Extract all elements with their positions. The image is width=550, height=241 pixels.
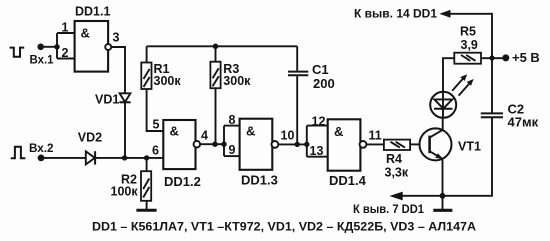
op-amp U: gate DD1.1: [75, 21, 109, 72]
svg-text:10: 10: [281, 129, 295, 143]
wire R1 to pin 5: [147, 89, 164, 131]
wire pin 13: [307, 156, 328, 158]
svg-text:R4: R4: [386, 152, 402, 166]
wire C1 top stub: [296, 46, 298, 70]
svg-text:3: 3: [113, 31, 120, 45]
wire +5V down to C2: [491, 58, 493, 113]
svg-text:+5 В: +5 В: [512, 50, 540, 65]
svg-text:&: &: [81, 26, 90, 41]
wire C2 to bottom rail: [443, 117, 493, 196]
svg-text:5: 5: [153, 118, 160, 132]
svg-text:&: &: [246, 123, 255, 138]
resistor R4: [384, 140, 410, 150]
svg-text:VT1: VT1: [458, 140, 481, 154]
capacitor C1: [288, 71, 308, 73]
svg-text:&: &: [170, 123, 179, 138]
terminal Вх.1: [37, 44, 44, 51]
svg-text:13: 13: [310, 144, 324, 158]
wire arrow to +5V rail: [450, 14, 492, 58]
node R3 top junction: [213, 44, 219, 50]
ground: [442, 196, 444, 209]
svg-text:100к: 100к: [111, 185, 139, 199]
terminal +5 В: [502, 54, 509, 61]
svg-text:2: 2: [62, 46, 69, 60]
gate DD1.4: [328, 119, 361, 170]
ground R2: [136, 209, 156, 212]
node +5V junction: [489, 55, 494, 60]
wire DD1.3 out to DD1.4: [278, 143, 307, 145]
svg-text:DD1.2: DD1.2: [164, 174, 201, 189]
svg-text:VD2: VD2: [78, 130, 102, 144]
capacitor C2: [481, 112, 503, 114]
svg-text:8: 8: [229, 113, 236, 127]
resistor R2: [141, 171, 151, 201]
node C1 bottom: [295, 142, 300, 147]
svg-text:6: 6: [152, 144, 159, 158]
wire pin 2: [57, 58, 75, 60]
svg-text:VD1: VD1: [95, 93, 119, 107]
wire pin 3 to VD1: [111, 47, 125, 94]
wire Вх.1 to junction: [41, 46, 57, 48]
wire pin 12: [307, 125, 328, 127]
svg-text:12: 12: [312, 114, 326, 128]
LED arrow 1: [452, 78, 463, 90]
svg-text:&: &: [334, 124, 343, 139]
node bracket DD1.3: [221, 142, 226, 147]
diode VD2: [86, 151, 95, 164]
svg-text:Вх.2: Вх.2: [29, 143, 54, 155]
wire R5 to +5V: [481, 57, 506, 59]
wire DD1.3 input bracket: [223, 126, 225, 157]
svg-text:DD1 – К561ЛА7, VT1 –КТ972, V: DD1 – К561ЛА7, VT1 –КТ972, VD1, VD2 – КД…: [92, 222, 476, 234]
wire pin 8: [224, 125, 240, 127]
svg-text:К выв. 14 DD1: К выв. 14 DD1: [354, 9, 438, 21]
svg-text:DD1.1: DD1.1: [75, 5, 110, 19]
wire DD1.2 out to DD1.3: [200, 143, 224, 145]
wire VD1 to node: [124, 102, 126, 158]
node bracket DD1.4: [304, 142, 309, 147]
diode VD1: [120, 93, 131, 102]
svg-text:R5: R5: [460, 25, 476, 39]
arrow to pin 14: [439, 10, 450, 18]
svg-text:47мк: 47мк: [508, 115, 539, 130]
LED VD3: [430, 92, 456, 118]
wire collector to LED: [442, 118, 444, 130]
resistor R1: [141, 63, 151, 90]
wire R3 down to node: [215, 88, 217, 144]
output bubble DD1.4 pin 11: [360, 141, 367, 148]
svg-text:Вх.1: Вх.1: [30, 55, 55, 67]
svg-text:4: 4: [201, 129, 208, 143]
LED arrow 2: [459, 83, 470, 95]
svg-text:1: 1: [62, 21, 69, 35]
svg-text:C1: C1: [312, 62, 329, 77]
terminal Вх.2: [38, 155, 45, 162]
input pulse symbol Вх.2: [11, 147, 26, 159]
svg-text:300к: 300к: [223, 74, 251, 88]
transistor VT1: [420, 128, 452, 160]
svg-text:200: 200: [313, 76, 335, 91]
svg-text:К выв. 7 DD1: К выв. 7 DD1: [353, 204, 425, 216]
output bubble DD1.2 pin 4: [194, 141, 201, 148]
wire VD2 to DD1.2 pin 6: [95, 157, 163, 159]
wire to pin 7 arrow: [402, 195, 443, 197]
node VD1 junction: [122, 155, 127, 160]
node emitter junction: [440, 193, 446, 199]
svg-text:3,3к: 3,3к: [385, 166, 409, 180]
wire R2 stub: [146, 158, 148, 171]
wire R1 top stub: [146, 46, 148, 62]
wire LED to R5: [443, 58, 454, 92]
output bubble DD1.1 pin 3: [105, 44, 111, 50]
gate DD1.3: [240, 119, 273, 170]
node R2 junction: [144, 155, 149, 160]
wire pin 1: [57, 32, 75, 34]
node junction Вх.1: [54, 44, 59, 49]
wire Вх.2 to VD2: [41, 157, 86, 159]
wire DD1.4 out to R4: [366, 143, 384, 145]
resistor R5: [454, 53, 481, 64]
wire R2 to ground: [146, 201, 148, 209]
wire R3 top stub: [215, 46, 217, 61]
wire top rail: [147, 45, 298, 47]
wire emitter down: [442, 159, 444, 196]
svg-text:DD1.4: DD1.4: [329, 173, 367, 188]
svg-text:DD1.3: DD1.3: [241, 173, 278, 188]
gate DD1.2: [163, 120, 195, 169]
arrow to pin 7: [389, 192, 402, 201]
input pulse symbol Вх.1: [10, 48, 25, 57]
wire C1 bottom to node: [296, 75, 298, 144]
svg-text:3,9: 3,9: [461, 38, 478, 52]
resistor R3: [210, 62, 220, 88]
svg-text:11: 11: [369, 129, 382, 143]
svg-text:9: 9: [229, 143, 236, 157]
wire pin 9: [224, 155, 240, 157]
node R3 bottom: [212, 142, 217, 147]
wire DD1.4 input bracket: [306, 126, 308, 157]
wire DD1.1 input bracket: [56, 33, 58, 59]
wire R4 to VT1 base: [410, 143, 419, 145]
svg-text:300к: 300к: [154, 74, 182, 88]
output bubble DD1.3 pin 10: [272, 141, 279, 148]
